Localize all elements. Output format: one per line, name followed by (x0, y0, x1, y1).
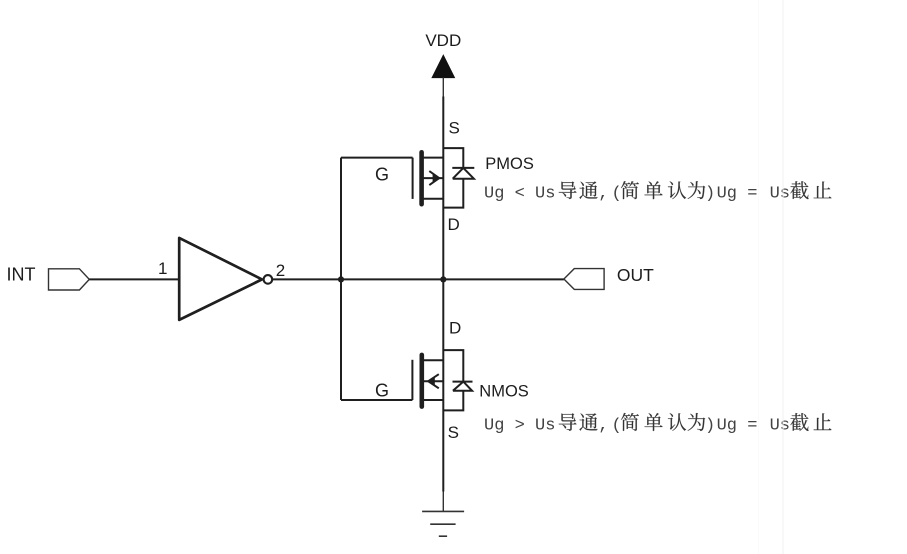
wire inverter output to OUT (272, 278, 564, 280)
svg-text:Us: Us (770, 416, 790, 435)
source stub (422, 399, 444, 401)
svg-text:): ) (705, 185, 715, 204)
transistor Q1 PMOS (341, 148, 474, 208)
channel bar (419, 152, 424, 204)
svg-text:Ug > Us: Ug > Us (484, 416, 555, 435)
gate bar (411, 360, 413, 400)
svg-text:S: S (448, 423, 459, 442)
wire VDD to PMOS source / main vertical rail (442, 97, 444, 492)
global label INT (7, 265, 90, 291)
drain stub (422, 359, 444, 361)
junction node output net (440, 276, 446, 282)
drain stub (422, 198, 444, 200)
svg-text:Ug: Ug (717, 185, 737, 204)
transistor Q2 NMOS (341, 350, 473, 410)
annotation PMOS: Ug < Us 导通,(简单认为)Ug = Us 截止 (484, 181, 832, 203)
svg-text:,: , (598, 416, 608, 435)
svg-text:S: S (449, 118, 460, 137)
inverter U1 (158, 238, 285, 320)
global label OUT (564, 265, 654, 290)
faint screen artifact line (782, 0, 784, 554)
source stub (422, 157, 444, 159)
wire gate (NMOS) (341, 399, 412, 401)
power symbol VDD (425, 31, 461, 97)
svg-text:): ) (705, 416, 715, 435)
svg-text:1: 1 (158, 259, 167, 278)
svg-text:(: ( (612, 185, 622, 204)
bulk stub with arrow (422, 177, 444, 179)
svg-text:=: = (747, 185, 757, 204)
svg-text:=: = (747, 416, 757, 435)
svg-text:2: 2 (276, 261, 285, 280)
svg-text:OUT: OUT (617, 265, 654, 285)
junction node gate net (338, 276, 344, 282)
body diode D2 (NMOS) (443, 350, 472, 410)
annotation NMOS: Ug > Us 导通,(简单认为)Ug = Us 截止 (484, 413, 832, 435)
wire NMOS source to ground (442, 492, 444, 512)
bulk stub with arrow (422, 380, 444, 382)
svg-text:INT: INT (7, 265, 36, 285)
svg-text:D: D (448, 215, 460, 234)
svg-text:NMOS: NMOS (479, 383, 529, 401)
svg-text:D: D (449, 319, 461, 338)
wire gate (PMOS) (341, 157, 413, 159)
svg-text:G: G (375, 165, 389, 185)
svg-text:G: G (375, 381, 389, 401)
ground (422, 511, 464, 536)
svg-text:(: ( (612, 416, 622, 435)
wire gate net vertical (340, 158, 342, 400)
svg-text:VDD: VDD (425, 31, 461, 50)
svg-text:Ug: Ug (717, 416, 737, 435)
body diode D1 (PMOS) (443, 148, 474, 208)
gate bar (412, 158, 414, 199)
svg-text:,: , (598, 185, 608, 204)
channel bar (419, 355, 424, 407)
svg-text:Ug < Us: Ug < Us (484, 185, 555, 204)
svg-text:PMOS: PMOS (485, 155, 534, 173)
svg-text:Us: Us (770, 185, 790, 204)
wire INT to inverter input (89, 278, 179, 280)
